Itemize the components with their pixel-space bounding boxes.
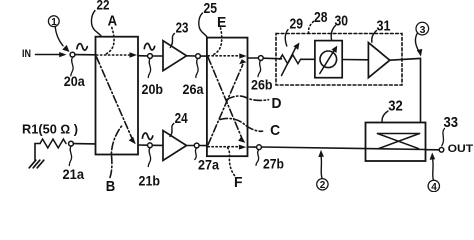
svg-text:3: 3 [420,24,426,36]
svg-text:B: B [106,178,116,192]
svg-text:26a: 26a [183,81,204,97]
svg-text:IN: IN [22,48,31,60]
wire node 21a to hybrid 22 [73,143,95,145]
node 21a [69,141,74,146]
variable attenuator 29 [280,55,301,64]
label 20a leader [71,57,73,76]
wire node 21b to amplifier 24 [152,144,163,146]
wire 25 to node 27b [248,146,257,148]
svg-text:27b: 27b [263,156,284,172]
coupler through line [366,148,426,151]
node 27a [194,143,199,148]
terminal callout 1 [48,16,59,27]
label A leader [104,28,114,55]
svg-text:31: 31 [377,18,391,34]
path F dotted bottom line [208,146,241,148]
node 26a [196,54,201,59]
sine mark on 20b wire [144,43,154,50]
wire node 27b to combiner 32 [261,147,365,149]
terminal callout 2 [317,179,328,190]
label 21b leader [148,148,150,167]
svg-text:E: E [217,14,226,31]
label 26a leader [196,59,198,78]
wire node 27a to hybrid 25 [199,145,207,147]
wire 32 to node 33 [426,149,440,151]
svg-text:30: 30 [335,13,349,29]
combiner 32 [366,123,426,162]
coupler top bar [378,133,420,135]
wire 31 to corner and down to 32 [390,58,421,133]
path B dash-dot diagonal [97,57,133,140]
hybrid coupler 25 [207,38,248,157]
phase shifter 30 [315,41,342,78]
label 27a leader [195,148,197,159]
path C dash-dot diagonal up [208,65,243,145]
wire node 20a to hybrid 22 [75,54,96,56]
resistor R1 [35,143,40,145]
wire amp 24 to node 27a [187,145,195,147]
wire amp 23 to node 26a [187,55,196,57]
label F leader [227,147,235,176]
terminal callout 3 [416,22,429,35]
amplifier 31 [368,43,389,78]
svg-text:A: A [108,13,118,30]
wire 30 to 31 [342,59,368,61]
svg-text:29: 29 [290,17,304,33]
label 21a leader [69,146,71,165]
svg-text:32: 32 [388,98,403,115]
control unit 28 dashed box [276,34,402,86]
wire node 26b to attenuator 29 [263,57,281,60]
svg-text:C: C [270,122,280,139]
svg-text:OUT: OUT [448,143,474,155]
label 27b leader [256,150,259,166]
amplifier 24 [163,131,187,161]
wire IN to node 20a [36,54,61,56]
path D dash-dot diagonal down [208,57,242,138]
wire 29 to 30 [301,58,315,60]
node 21b [148,143,153,148]
node 20a [70,52,75,57]
wire 25 to node 26b [248,57,259,59]
hybrid coupler 22 [96,37,139,155]
svg-text:4: 4 [431,182,437,192]
node 26b [258,56,263,61]
svg-text:22: 22 [97,0,110,13]
wire 22 to node 20b [138,55,148,57]
arrowhead on IN wire [59,52,66,57]
svg-text:F: F [234,174,243,191]
label B leader [110,125,123,178]
node 33 [439,148,444,153]
path A dotted through line [97,54,133,56]
svg-text:33: 33 [444,115,459,131]
wire node 20b to amplifier 23 [152,55,163,57]
wire node 26a to hybrid 25 [200,55,207,57]
node 20b [148,54,153,59]
wire 22 to node 21b [138,144,148,146]
label E leader [212,28,222,56]
label 26b leader [258,61,261,77]
svg-text:1: 1 [51,17,57,28]
label C leader [220,118,263,131]
svg-text:25: 25 [204,1,218,17]
svg-text:20b: 20b [142,81,164,97]
sine mark on 20a wire [77,44,87,51]
svg-text:28: 28 [314,10,328,26]
svg-text:23: 23 [176,21,189,37]
svg-text:20a: 20a [64,73,85,89]
node 27b [257,145,262,150]
coupler X [378,134,419,149]
terminal callout 4 [428,180,439,191]
ground [34,144,36,161]
path E dotted top line [208,55,241,57]
svg-text:D: D [272,95,282,112]
svg-text:24: 24 [175,111,188,127]
label D leader [227,96,269,100]
svg-text:R1(50 Ω ): R1(50 Ω ) [22,123,78,137]
svg-text:21b: 21b [139,173,161,189]
amplifier 23 [163,41,187,71]
svg-text:27a: 27a [198,157,219,173]
svg-text:21a: 21a [63,166,85,182]
svg-text:2: 2 [320,180,326,191]
sine mark on 21b wire [142,133,152,140]
label 20b leader [148,59,150,78]
svg-text:26b: 26b [251,77,273,93]
